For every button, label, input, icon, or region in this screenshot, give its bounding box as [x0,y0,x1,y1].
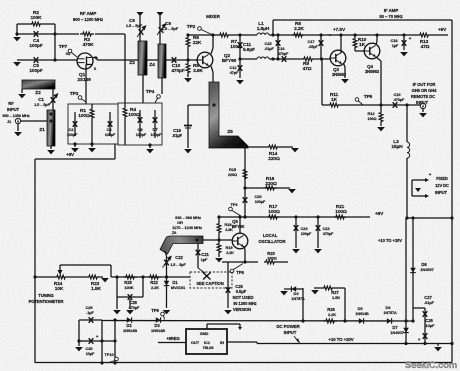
svg-text:1.5 – 5pF: 1.5 – 5pF [126,23,143,28]
svg-text:C15: C15 [264,41,272,46]
svg-text:BFY90: BFY90 [222,58,237,64]
svg-text:C17: C17 [307,39,315,44]
svg-text:100Ω: 100Ω [335,209,347,215]
svg-text:1.5 – 5pF: 1.5 – 5pF [162,26,179,31]
svg-text:C22: C22 [175,255,183,260]
svg-text:220Ω: 220Ω [228,173,237,177]
svg-text:R15: R15 [229,167,237,172]
svg-text:1pF: 1pF [201,257,208,262]
svg-text:1.8μH: 1.8μH [257,26,270,32]
svg-text:2.2K: 2.2K [328,312,336,317]
svg-text:BFY90: BFY90 [232,224,245,229]
svg-text:SEE CAPTION: SEE CAPTION [196,281,223,286]
svg-text:FIXED: FIXED [436,176,448,181]
svg-text:DC POWER: DC POWER [276,324,300,329]
svg-text:100Ω: 100Ω [368,117,377,121]
svg-text:VERSION: VERSION [233,307,251,312]
svg-text:470pF: 470pF [278,52,289,56]
svg-text:TP2: TP2 [187,24,196,30]
svg-text:100pF: 100pF [29,68,43,74]
svg-text:SeekIC.com: SeekIC.com [405,359,457,370]
svg-text:OUT: OUT [191,340,200,345]
svg-text:POTENTIOMETER: POTENTIOMETER [29,299,64,304]
svg-text:1.5 – 5pF: 1.5 – 5pF [170,263,186,267]
svg-text:470K: 470K [82,42,94,48]
svg-text:R19: R19 [225,245,233,250]
svg-text:IF OUT FOR: IF OUT FOR [413,82,436,87]
svg-text:GND: GND [200,331,209,336]
svg-text:470pF: 470pF [171,68,185,74]
svg-text:1K: 1K [331,97,338,103]
svg-text:D4: D4 [294,291,300,296]
svg-text:100K: 100K [30,15,42,21]
svg-text:REMOTE DC: REMOTE DC [411,94,435,99]
svg-text:INPUT: INPUT [284,330,297,335]
svg-text:2N5953: 2N5953 [365,69,380,74]
svg-text:D6: D6 [386,305,392,310]
svg-text:TP8: TP8 [236,270,244,275]
svg-text:Z1: Z1 [39,127,45,133]
svg-text:LOCAL: LOCAL [263,233,278,238]
svg-text:0.5μF: 0.5μF [236,289,247,294]
svg-text:1μF: 1μF [392,44,399,48]
svg-text:220Ω: 220Ω [268,156,280,162]
svg-text:C23: C23 [322,226,330,231]
svg-text:.05μF: .05μF [308,45,318,49]
svg-text:C24: C24 [300,226,308,231]
svg-text:G2: G2 [66,52,71,56]
svg-text:2.2K: 2.2K [226,251,234,255]
svg-text:1N914B: 1N914B [151,328,165,333]
svg-text:TP5: TP5 [364,94,373,100]
svg-text:78L08: 78L08 [203,345,215,350]
svg-text:1N757A: 1N757A [383,311,397,315]
svg-text:100K: 100K [124,285,133,290]
svg-text:10μF: 10μF [86,352,95,356]
svg-text:10μF: 10μF [426,323,436,328]
svg-text:100pF: 100pF [150,132,162,137]
svg-text:IN: IN [220,340,224,345]
svg-text:TUNING: TUNING [38,293,53,298]
svg-text:INPUT: INPUT [435,190,447,195]
svg-text:D5: D5 [358,306,364,311]
svg-text:C19: C19 [393,92,401,97]
svg-text:470pF: 470pF [394,98,405,102]
svg-text:Z5: Z5 [227,129,233,135]
svg-text:C8: C8 [138,127,144,132]
svg-text:2S139: 2S139 [77,77,91,83]
svg-text:22K: 22K [193,40,202,46]
svg-text:100pF: 100pF [255,200,266,204]
svg-text:C16: C16 [277,46,285,51]
svg-text:GH5 OR GH4: GH5 OR GH4 [412,88,438,93]
svg-text:2.2K: 2.2K [294,26,304,32]
svg-text:47Ω: 47Ω [421,44,430,50]
svg-text:C2: C2 [69,127,75,132]
svg-text:100pF: 100pF [301,232,312,236]
svg-text:MIXER: MIXER [206,14,221,19]
svg-text:C18: C18 [390,38,398,43]
svg-text:3.9K: 3.9K [193,68,203,74]
svg-text:OSCILLATOR: OSCILLATOR [258,239,286,244]
svg-text:+8V: +8V [375,211,384,217]
svg-text:15μH: 15μH [391,144,403,150]
svg-text:1.5K: 1.5K [332,295,340,300]
svg-text:+10 TO +20V: +10 TO +20V [328,337,353,342]
svg-text:100pF: 100pF [136,133,147,137]
svg-text:100pF: 100pF [67,133,78,137]
svg-text:1.5 – 5pF: 1.5 – 5pF [34,102,50,107]
svg-text:+7.5V: +7.5V [333,27,346,33]
svg-text:.01μF: .01μF [424,300,435,305]
svg-text:+8REG: +8REG [166,336,179,341]
svg-text:Z2: Z2 [35,90,41,96]
svg-text:R12: R12 [367,111,375,116]
svg-text:RF AMP: RF AMP [80,11,97,16]
svg-text:900 – 1356 MHz: 900 – 1356 MHz [2,113,29,118]
svg-text:TP4: TP4 [146,89,155,95]
svg-text:1N4007: 1N4007 [390,330,404,335]
svg-text:TP7: TP7 [59,44,68,50]
svg-text:1N914B: 1N914B [355,312,369,316]
svg-text:100Ω: 100Ω [268,209,280,215]
svg-text:C12: C12 [229,65,237,70]
svg-text:TP9: TP9 [151,308,159,313]
svg-text:IN 1300 MHz: IN 1300 MHz [233,301,256,306]
svg-text:RF: RF [8,101,14,106]
svg-text:1N4007: 1N4007 [420,267,434,272]
svg-text:1170 – 1240 MHz: 1170 – 1240 MHz [172,225,202,230]
svg-text:MV2101: MV2101 [171,285,186,290]
svg-text:+9V: +9V [438,27,447,33]
svg-text:+6V: +6V [66,152,75,157]
svg-text:100Ω: 100Ω [78,113,90,119]
svg-text:12V DC: 12V DC [435,183,449,188]
svg-text:47Ω: 47Ω [303,66,312,72]
svg-text:C3: C3 [107,127,113,132]
svg-text:470pF: 470pF [323,232,334,236]
svg-text:.1μF: .1μF [86,311,94,315]
svg-text:C20: C20 [254,194,262,199]
svg-text:Z4: Z4 [149,62,155,68]
svg-text:TP3: TP3 [70,91,79,97]
svg-text:C30: C30 [85,346,93,351]
svg-text:1.5K: 1.5K [91,286,101,292]
svg-text:100pF: 100pF [105,133,116,137]
svg-text:10K: 10K [55,286,64,292]
svg-text:TP10: TP10 [104,352,114,357]
svg-text:Z3: Z3 [129,60,135,66]
svg-text:1N914B: 1N914B [123,328,137,333]
svg-text:50 – 70 MHz: 50 – 70 MHz [379,14,402,19]
svg-text:100Ω: 100Ω [267,256,277,261]
svg-text:.01μF: .01μF [172,133,183,138]
svg-text:INPUT: INPUT [416,100,429,105]
svg-text:220Ω: 220Ω [265,181,277,187]
svg-text:100pF: 100pF [29,43,43,49]
svg-text:2.2K: 2.2K [151,285,159,290]
svg-text:C29: C29 [85,305,93,310]
svg-text:47pF: 47pF [230,71,239,75]
svg-text:TP6: TP6 [230,202,238,207]
svg-text:NOT USED: NOT USED [233,295,254,300]
svg-text:.01μF: .01μF [264,47,274,51]
svg-text:+10 TO +20V: +10 TO +20V [378,238,402,243]
svg-text:5.6pF: 5.6pF [243,47,255,53]
svg-text:900 – 1200 MHz: 900 – 1200 MHz [73,17,103,22]
svg-text:IF AMP: IF AMP [384,8,399,13]
svg-text:INPUT: INPUT [7,107,20,112]
